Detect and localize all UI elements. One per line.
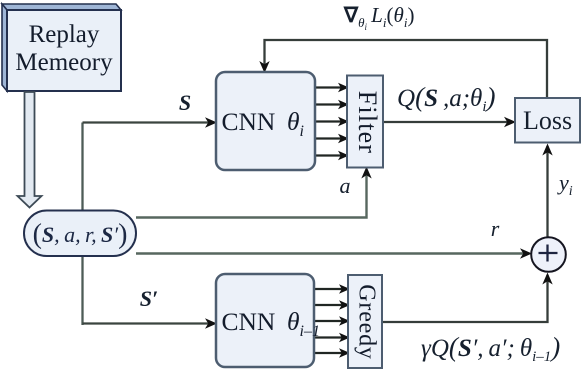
wire y_i from adder to Loss bottom: [546, 146, 548, 237]
svg-text:CNN: CNN: [222, 107, 276, 136]
tuple node (S,a,r,S') stadium: [24, 211, 136, 257]
wire r line from (S,a,r,S') to adder: [136, 252, 528, 254]
svg-text:Replay: Replay: [29, 21, 100, 48]
svg-text:r: r: [491, 216, 500, 241]
hollow arrow from Replay Memory to tuple: [18, 92, 42, 208]
svg-text:CNN: CNN: [222, 307, 276, 336]
svg-text:Memeory: Memeory: [15, 49, 113, 76]
svg-text:S′: S′: [140, 286, 158, 311]
CNN U2 box (theta_i-1): [216, 274, 314, 367]
Replay Memory 3D box left face: [2, 4, 7, 91]
wire vertical branch from (S,a,r,S') up/down at x=82.5: [81, 123, 83, 326]
CNN bottom arrows to Greedy (5): [314, 289, 344, 353]
wire S' line to CNN bottom: [83, 322, 214, 324]
wire a line from (S,a,r,S') to Filter bottom: [136, 171, 367, 218]
svg-text:Filter: Filter: [353, 91, 382, 155]
wire Q output Filter to Loss: [383, 121, 512, 123]
CNN U1 box (theta_i): [216, 72, 315, 170]
svg-text:a: a: [340, 173, 351, 198]
svg-text:Greedy: Greedy: [353, 284, 379, 359]
Replay Memory box front: [7, 10, 121, 91]
Filter box: [347, 76, 383, 168]
adder circle with plus: [531, 237, 566, 272]
svg-text:Q(S ,a;θi): Q(S ,a;θi): [397, 82, 496, 115]
Loss box: [515, 98, 580, 143]
wire Greedy output to adder bottom: [382, 275, 548, 322]
Replay Memory 3D box top face: [2, 4, 121, 10]
Greedy box: [348, 275, 382, 368]
CNN arrows to Filter (5): [315, 88, 343, 156]
wire S line to CNN top: [83, 121, 214, 123]
svg-text:(S, a, r, S′): (S, a, r, S′): [33, 219, 128, 250]
svg-text:Loss: Loss: [523, 106, 572, 135]
wire gradient feedback from Loss top to CNN top: [265, 40, 548, 98]
svg-text:S: S: [179, 90, 191, 115]
